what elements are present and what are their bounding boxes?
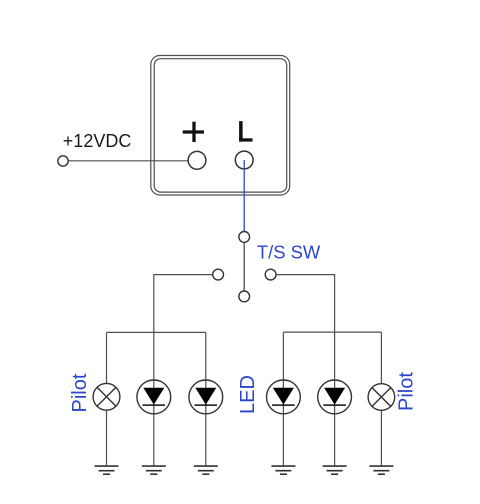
LED D3 (267, 380, 301, 414)
ground G5 (323, 466, 347, 474)
wire switch right to right bus (276, 275, 335, 333)
svg-text:+12VDC: +12VDC (63, 131, 132, 151)
LED D4 (318, 380, 352, 414)
wire left bus (107, 331, 206, 333)
switch S1 bottom contact (239, 291, 250, 302)
ground G3 (194, 466, 218, 474)
switch S1 top contact (239, 232, 250, 243)
switch S1 left contact (213, 269, 224, 280)
LED D1 (137, 380, 171, 414)
switch S1 right contact (265, 269, 276, 280)
svg-text:T/S SW: T/S SW (257, 241, 321, 262)
wire right bus (283, 331, 381, 333)
svg-text:LED: LED (237, 375, 259, 414)
terminal L of flasher (235, 151, 253, 169)
switch S1 pole link wire (243, 242, 245, 291)
flasher relay box U1 inner outline (154, 59, 287, 192)
wire L to switch (blue) (243, 160, 245, 232)
wire drop through LED D1 to ground (153, 332, 155, 466)
wire switch left to left bus (154, 275, 213, 333)
svg-text:Pilot: Pilot (396, 372, 418, 411)
wire drop through LED D2 to ground (205, 332, 207, 466)
ground G4 (271, 466, 295, 474)
pin label L (239, 121, 252, 142)
wire drop through LED D4 to ground (334, 332, 336, 466)
pin label + (plus symbol on flasher) (183, 122, 204, 142)
wire supply to + terminal (68, 160, 189, 162)
pilot lamp left (circle with X) (93, 383, 120, 410)
wire drop to right pilot lamp (380, 332, 382, 384)
pilot lamp right (circle with X) (368, 384, 395, 411)
wire right pilot lamp to ground (380, 410, 382, 466)
terminal + of flasher (188, 151, 206, 169)
svg-text:Pilot: Pilot (69, 373, 91, 412)
wire drop to left pilot lamp (106, 332, 108, 383)
ground G2 (142, 466, 166, 474)
ground G1 (95, 466, 119, 474)
wire left pilot lamp to ground (106, 410, 108, 466)
flasher relay box U1 outer outline (151, 56, 290, 196)
ground G6 (369, 466, 393, 474)
node supply terminal (open circle) (58, 156, 68, 166)
LED D2 (189, 380, 223, 414)
wire drop through LED D3 to ground (282, 332, 284, 466)
